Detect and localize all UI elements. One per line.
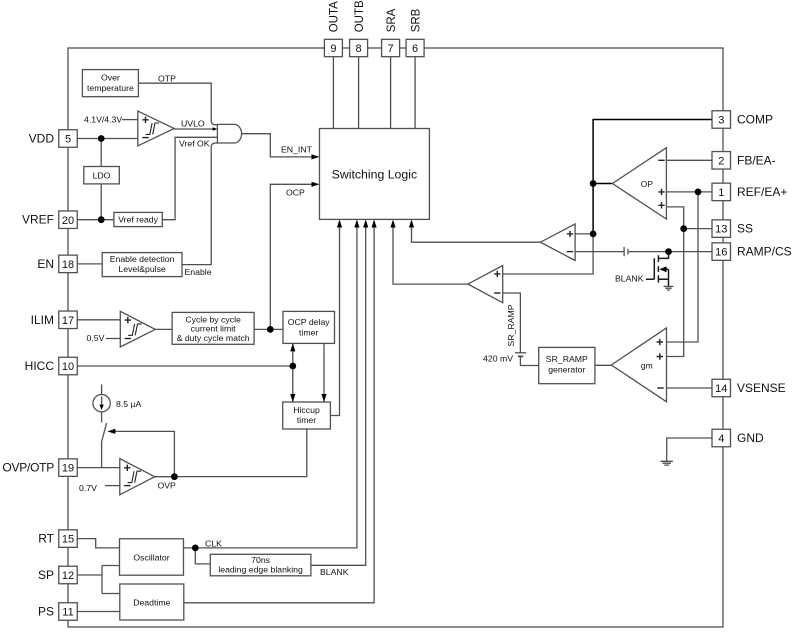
svg-text:13: 13 [715, 224, 727, 236]
wire pin6 to Switching Logic [414, 57, 416, 129]
arrow down into Hiccup timer right [321, 394, 326, 402]
pin 1 REF/EA+ [712, 183, 731, 201]
pin 12 SP [59, 566, 78, 584]
sign - ILIM comparator [125, 338, 131, 340]
svg-text:OUTA: OUTA [329, 1, 341, 32]
wire 0.7V reference to comparator - [105, 485, 120, 487]
wire OVP/OTP pin19 to comparator [77, 467, 120, 469]
svg-text:VREF: VREF [22, 213, 54, 227]
wire SP pin12 to oscillator and deadtime [77, 566, 120, 594]
sign + UVLO comparator [142, 117, 148, 123]
pin 16 RAMP/CS [712, 243, 731, 261]
sign - PWM comparator [567, 251, 573, 253]
svg-text:17: 17 [62, 315, 74, 327]
pin 13 SS [712, 220, 731, 238]
junction SS [680, 225, 687, 232]
sign + SR comparator [494, 271, 500, 277]
svg-text:12: 12 [62, 570, 74, 582]
wire SS pin13 [684, 228, 712, 230]
junction REF/EA+ [695, 189, 702, 196]
svg-text:16: 16 [715, 247, 727, 259]
svg-text:SP: SP [38, 568, 54, 582]
svg-text:RAMP/CS: RAMP/CS [737, 245, 792, 259]
pin 10 HICC [59, 357, 78, 375]
svg-text:OTP: OTP [158, 74, 176, 84]
block LDO [84, 167, 120, 184]
svg-text:Over: Over [101, 73, 120, 83]
sign - UVLO comparator [142, 137, 148, 139]
arrow OVP feedback to switch [107, 429, 115, 434]
pin 20 VREF [59, 211, 78, 229]
svg-text:OP: OP [641, 179, 654, 189]
wire battery to SR_RAMP generator [520, 357, 538, 366]
wire HICC pin10 tap [77, 365, 292, 367]
wire SR_RAMP generator to gm [595, 364, 611, 366]
transistor MOSFET blanking switch [646, 252, 669, 286]
wire 4.1V/4.3V reference to comparator + [122, 119, 138, 121]
wire SS node down to gm + input [667, 229, 684, 357]
wire EN_INT from AND gate to Switching Logic [242, 134, 312, 157]
wire Hiccup timer output up to Switching Logic [330, 228, 339, 416]
svg-text:10: 10 [62, 361, 74, 373]
junction OCP [267, 326, 274, 333]
pin 11 PS [59, 603, 78, 621]
junction LDO/VREF [98, 216, 105, 223]
svg-text:OVP/OTP: OVP/OTP [2, 461, 54, 475]
sign + gm first [657, 339, 663, 345]
wire OCP up to Switching Logic [270, 184, 311, 329]
arrow deadtime into Switching Logic [372, 220, 377, 228]
svg-text:FB/EA-: FB/EA- [737, 153, 776, 167]
svg-text:9: 9 [330, 43, 336, 55]
svg-text:leading edge blanking: leading edge blanking [218, 565, 303, 575]
pin 2 FB/EA- [712, 152, 731, 170]
svg-text:0.5V: 0.5V [87, 333, 105, 343]
op-amp OP error amplifier [612, 148, 666, 219]
wire REF node down to gm + input [667, 192, 699, 342]
junction RAMP/CS MOSFET drain [665, 248, 672, 255]
block SR_RAMP generator [539, 347, 595, 383]
wire pin9 to Switching Logic [332, 57, 334, 129]
wire cycle-by-cycle to OCP delay timer [254, 328, 283, 330]
wire PS pin11 to Deadtime [77, 611, 120, 613]
wire OP second + input to SS node [666, 207, 683, 229]
ground symbol near GND pin [661, 461, 673, 465]
wire OCP delay timer to Hiccup timer (double arrow) [292, 343, 294, 402]
arrow up into OCP delay timer [290, 343, 295, 351]
wire CLK branch to 70ns blanking [195, 548, 210, 564]
sign - OVP comparator [124, 485, 130, 487]
wire EN pin18 to Enable detection [77, 263, 102, 265]
junction HICC [289, 363, 296, 370]
sign - OP [658, 159, 664, 161]
block Hiccup timer [283, 402, 331, 429]
pin 4 GND [712, 429, 731, 447]
sign + OP first [658, 189, 664, 195]
sign - SR comparator [494, 292, 500, 294]
pin 19 OVP/OTP [59, 459, 78, 477]
wire FB/EA- pin2 to OP - input [666, 159, 712, 161]
svg-text:Oscillator: Oscillator [133, 552, 169, 562]
block Oscillator [120, 539, 184, 575]
pin 15 RT [59, 530, 78, 548]
sign + OP second [658, 202, 664, 208]
block Enable detection [102, 253, 182, 277]
wire REF/EA+ pin1 to OP + input [666, 191, 712, 193]
svg-text:8: 8 [356, 43, 362, 55]
svg-text:SR_RAMP: SR_RAMP [546, 354, 588, 364]
junction OVP [171, 473, 178, 480]
pin 17 ILIM [59, 311, 78, 329]
block OCP delay timer [283, 311, 335, 343]
svg-text:temperature: temperature [87, 83, 134, 93]
svg-text:SRA: SRA [386, 8, 398, 32]
svg-text:11: 11 [62, 607, 73, 619]
wire OVP feedback to switch [115, 431, 174, 476]
svg-text:COMP: COMP [737, 113, 773, 127]
svg-text:15: 15 [62, 534, 74, 546]
comparator UVLO [138, 111, 174, 146]
wire SR comparator output to Switching Logic [393, 228, 468, 285]
sign - gm [657, 387, 663, 389]
svg-text:4: 4 [718, 433, 724, 445]
comparator current limit (ILIM) [120, 311, 155, 347]
sign + gm second [657, 353, 663, 359]
block Deadtime [120, 584, 184, 620]
sign + ILIM comparator [125, 317, 131, 323]
svg-text:Vref OK: Vref OK [179, 139, 210, 149]
svg-text:timer: timer [299, 327, 318, 337]
junction VDD/LDO [98, 135, 105, 142]
comparator OVP [120, 459, 155, 495]
wire COMP net down to SR comparator + [503, 234, 593, 274]
pin 3 COMP [712, 111, 731, 129]
svg-text:0.7V: 0.7V [79, 483, 97, 493]
sign + OVP comparator [124, 465, 130, 471]
svg-text:4.1V/4.3V: 4.1V/4.3V [84, 114, 122, 124]
svg-text:GND: GND [737, 431, 764, 445]
arrow BLANK into Switching Logic [363, 220, 368, 228]
svg-text:1: 1 [718, 187, 724, 199]
wire SR comparator - to 420mV battery [503, 293, 521, 353]
svg-text:Hiccup: Hiccup [293, 405, 320, 415]
svg-text:EN: EN [37, 257, 54, 271]
comparator SR [468, 266, 503, 303]
node COMP net (dark) pin3 to error amp and comparators [593, 120, 712, 234]
svg-text:generator: generator [548, 364, 585, 374]
wire CLK oscillator output to Switching Logic [184, 228, 357, 548]
svg-text:19: 19 [62, 463, 74, 475]
IC boundary border [68, 48, 723, 627]
hysteresis symbol UVLO comparator [146, 123, 160, 134]
wire OP output to COMP net [593, 183, 612, 185]
svg-text:VSENSE: VSENSE [737, 381, 786, 395]
svg-text:VDD: VDD [29, 132, 55, 146]
svg-text:SR_RAMP: SR_RAMP [506, 304, 516, 346]
wire pin8 to Switching Logic [358, 57, 360, 129]
wire RT pin15 to Oscillator [77, 539, 119, 548]
arrow CLK into Switching Logic [354, 220, 359, 228]
wire Hiccup timer bottom to OVP node [174, 429, 306, 477]
svg-text:Deadtime: Deadtime [133, 598, 170, 608]
pin 5 VDD [59, 130, 78, 148]
sign + PWM comparator [567, 231, 573, 237]
arrow EN_INT into Switching Logic [312, 154, 320, 159]
junction OP output [590, 180, 597, 187]
pin 7 SRA [382, 39, 400, 56]
svg-text:OCP delay: OCP delay [288, 317, 331, 327]
svg-text:2: 2 [718, 155, 724, 167]
arrow SR comparator into Switching Logic [390, 220, 395, 228]
svg-text:CLK: CLK [205, 538, 222, 548]
svg-text:8.5 µA: 8.5 µA [116, 399, 141, 409]
svg-text:RT: RT [38, 532, 54, 546]
wire pin7 to Switching Logic [390, 57, 392, 129]
svg-text:LDO: LDO [93, 171, 111, 181]
svg-text:Enable: Enable [185, 267, 212, 277]
junction PWM comparator + [590, 231, 597, 238]
wire OVP comparator output node [155, 476, 175, 478]
comparator PWM [540, 224, 575, 261]
svg-text:Switching Logic: Switching Logic [332, 167, 417, 181]
AND gate [217, 124, 241, 143]
wire Deadtime output to Switching Logic [184, 228, 374, 603]
battery 420 mV [515, 352, 526, 354]
svg-text:OCP: OCP [286, 187, 305, 197]
svg-text:5: 5 [65, 134, 71, 146]
svg-text:SRB: SRB [410, 8, 422, 32]
wire PWM comparator output to Switching Logic [412, 228, 541, 243]
wire BLANK 70ns output to Switching Logic [311, 228, 366, 566]
wire PWM comparator + input [575, 233, 593, 235]
block 70ns leading edge blanking [210, 554, 311, 576]
ground at MOSFET source [664, 286, 674, 290]
svg-text:3: 3 [718, 115, 724, 127]
svg-text:SS: SS [737, 222, 753, 236]
pin 9 OUTA [324, 39, 342, 56]
svg-text:EN_INT: EN_INT [281, 145, 313, 155]
wire current source stub and switch lead [102, 384, 107, 467]
svg-text:BLANK: BLANK [615, 274, 644, 284]
svg-text:OUTB: OUTB [354, 0, 366, 32]
svg-text:& duty cycle match: & duty cycle match [177, 333, 250, 343]
amplifier gm [611, 328, 666, 402]
svg-text:gm: gm [641, 361, 653, 371]
block Over temperature [82, 70, 138, 97]
arrow down into Hiccup timer left [290, 394, 295, 402]
svg-text:HICC: HICC [25, 359, 55, 373]
svg-text:18: 18 [62, 259, 74, 271]
pin 14 VSENSE [712, 379, 731, 397]
junction CLK [192, 545, 199, 552]
svg-text:UVLO: UVLO [181, 119, 205, 129]
arrow hiccup line into Switching Logic [337, 220, 342, 228]
wire GND pin4 to ground [667, 438, 712, 461]
svg-text:ILIM: ILIM [31, 313, 54, 327]
arrow UVLO into AND gate [213, 127, 218, 130]
svg-text:70ns: 70ns [251, 555, 270, 565]
arrow OCP into Switching Logic [312, 182, 320, 187]
svg-text:Level&pulse: Level&pulse [118, 264, 166, 274]
svg-text:PS: PS [38, 605, 54, 619]
capacitor in RAMP/CS path [624, 247, 628, 256]
wire VDD branch down to LDO [100, 139, 102, 220]
block Cycle by cycle current limit [172, 312, 254, 344]
svg-text:420 mV: 420 mV [483, 354, 513, 364]
wire VDD pin5 to UVLO comparator [77, 138, 138, 140]
wire OCP delay timer to Hiccup timer second [323, 343, 325, 402]
wire gm - input to VSENSE pin14 [667, 387, 713, 389]
svg-text:REF/EA+: REF/EA+ [737, 185, 787, 199]
pin 18 EN [59, 255, 78, 273]
svg-text:20: 20 [62, 215, 74, 227]
wire comparator to cycle-by-cycle block [155, 328, 172, 330]
block Vref ready [114, 212, 162, 226]
svg-text:OVP: OVP [158, 481, 177, 491]
arrow PWM comparator into Switching Logic [409, 220, 414, 228]
svg-text:6: 6 [412, 43, 418, 55]
svg-text:BLANK: BLANK [320, 567, 349, 577]
svg-text:Vref ready: Vref ready [118, 215, 158, 225]
pin 6 SRB [406, 39, 424, 56]
wire Vref ready to AND gate (Vref OK) [162, 137, 217, 219]
wire PWM comparator - to RAMP/CS via capacitor [575, 251, 712, 253]
pin 8 OUTB [350, 39, 368, 56]
hysteresis symbol ILIM comparator [128, 324, 142, 335]
wire 0.5V reference to comparator - [106, 338, 120, 340]
svg-text:timer: timer [297, 415, 316, 425]
hysteresis symbol OVP comparator [128, 471, 142, 482]
wire Enable from Enable detection to AND gate [182, 143, 217, 265]
svg-text:Enable detection: Enable detection [110, 254, 175, 264]
block Switching Logic [320, 129, 430, 220]
wire VREF pin20 to Vref ready [77, 219, 114, 221]
wire UVLO comparator output to AND gate [174, 128, 212, 130]
wire ILIM pin17 to current limit comparator [77, 319, 120, 321]
current source 8.5uA [93, 395, 110, 412]
svg-text:14: 14 [715, 383, 727, 395]
wire OTP from Over temperature to AND gate [138, 83, 217, 125]
svg-text:7: 7 [388, 43, 394, 55]
